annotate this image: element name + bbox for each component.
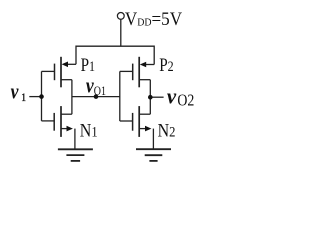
svg-text:O1: O1	[94, 85, 106, 98]
svg-text:v: v	[167, 84, 177, 109]
svg-text:P1: P1	[81, 55, 95, 76]
svg-text:VDD=5V: VDD=5V	[125, 8, 182, 29]
svg-text:O2: O2	[177, 91, 194, 109]
svg-text:v: v	[11, 80, 20, 104]
svg-text:1: 1	[21, 91, 26, 104]
svg-text:P2: P2	[159, 55, 174, 76]
